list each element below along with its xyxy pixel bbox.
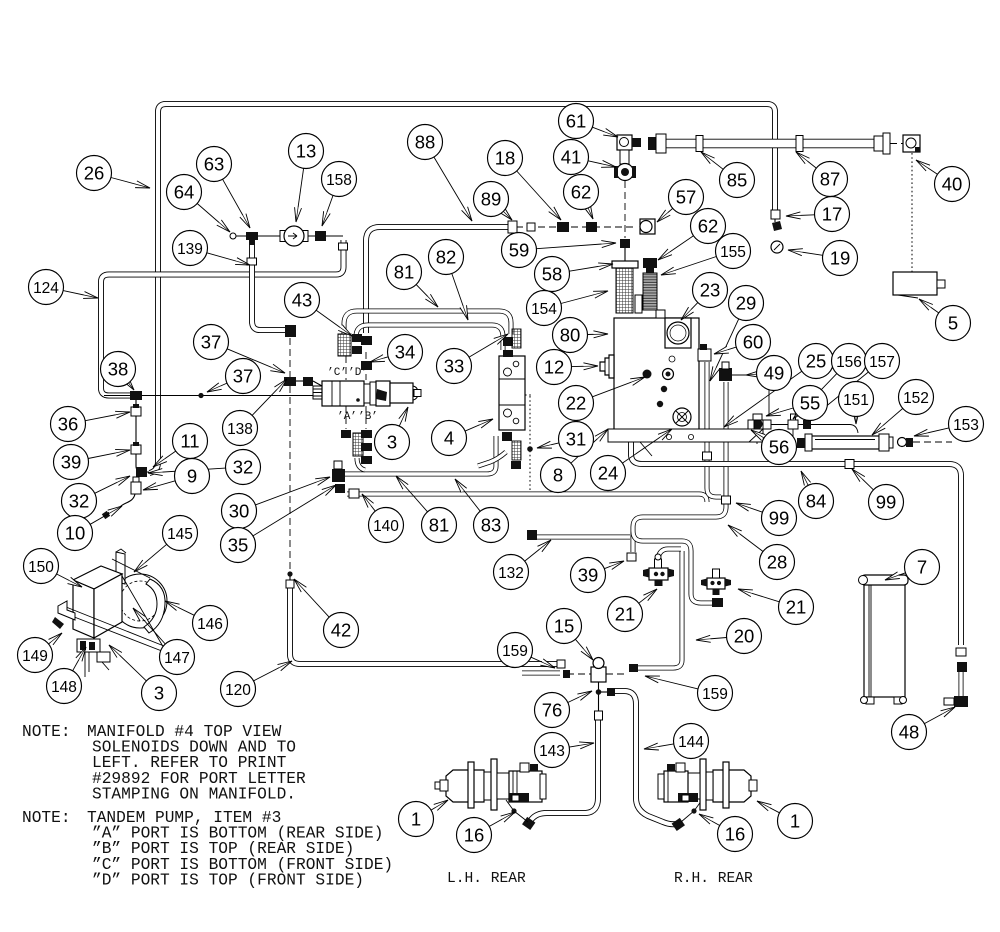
svg-text:12: 12 (544, 357, 565, 378)
hose 20 (637, 551, 682, 668)
elbow 40 (903, 135, 920, 152)
balloon 30 (222, 494, 257, 529)
balloon 3 (375, 425, 410, 460)
svg-text:57: 57 (676, 187, 697, 208)
svg-text:61: 61 (566, 111, 587, 132)
ball valve 56 (752, 419, 763, 430)
motor mount 12 (600, 355, 614, 378)
balloon 9 (175, 459, 210, 494)
svg-text:16: 16 (725, 824, 746, 845)
svg-text:24: 24 (598, 463, 619, 484)
balloon 21 (779, 590, 814, 625)
fittings below block (502, 432, 512, 441)
fitting 89 (508, 221, 517, 233)
svg-text:153: 153 (953, 417, 979, 434)
svg-text:150: 150 (28, 559, 54, 576)
tee 49 (719, 368, 732, 381)
svg-text:145: 145 (167, 526, 193, 543)
hose85 collars (696, 136, 703, 152)
svg-text:81: 81 (429, 515, 450, 536)
breather 155 (643, 273, 657, 310)
svg-text:60: 60 (743, 332, 764, 353)
balloon 31 (559, 422, 594, 457)
brake Y lines (506, 800, 528, 822)
hose144 end fitting (672, 818, 685, 831)
hose 10 wiggle (107, 494, 135, 514)
svg-text:19: 19 (830, 248, 851, 269)
collar on hose139 top (247, 258, 257, 265)
balloon 32 (62, 484, 97, 519)
svg-text:149: 149 (22, 648, 48, 665)
svg-text:43: 43 (292, 290, 313, 311)
svg-text:146: 146 (197, 616, 223, 633)
svg-text:17: 17 (822, 204, 843, 225)
balloon 39 (54, 445, 89, 480)
svg-text:NOTE:: NOTE: (22, 809, 71, 827)
balloon 28 (760, 545, 795, 580)
balloon 147 (160, 640, 195, 675)
balloon 143 (535, 733, 570, 768)
tee 38 (130, 391, 142, 400)
svg-text:16: 16 (464, 825, 485, 846)
collar 143 (595, 711, 603, 720)
collar 140 (349, 489, 359, 498)
balloon 124 (29, 270, 64, 305)
balloon 29 (729, 286, 764, 321)
balloon 16 (457, 818, 492, 853)
svg-text:155: 155 (720, 244, 746, 261)
svg-text:83: 83 (481, 515, 502, 536)
balloon 39 (571, 558, 606, 593)
svg-text:88: 88 (415, 132, 436, 153)
hose 132 (534, 536, 630, 538)
dashed line x=290 (289, 338, 291, 377)
svg-text:3: 3 (387, 432, 397, 453)
balloon 148 (47, 669, 82, 704)
svg-text:99: 99 (876, 492, 897, 513)
elbow 61 (617, 135, 632, 150)
svg-text:148: 148 (51, 679, 77, 696)
collar on 158 hose (339, 243, 348, 250)
balloon 139 (173, 231, 208, 266)
hose85 left end fittings (648, 137, 656, 150)
svg-text:89: 89 (481, 189, 502, 210)
balloon 48 (892, 715, 927, 750)
svg-text:40: 40 (942, 174, 963, 195)
line ball valve to cylinder (771, 424, 850, 426)
balloon 32 (226, 450, 261, 485)
cooler bottom fittings (956, 648, 966, 656)
fittings 148 under box (77, 639, 100, 652)
svg-text:21: 21 (786, 597, 807, 618)
balloon 37 (226, 359, 261, 394)
balloon 144 (674, 724, 709, 759)
dashed T15 area (567, 673, 592, 675)
svg-text:85: 85 (727, 170, 748, 191)
balloon 41 (554, 140, 589, 175)
balloon 24 (591, 456, 626, 491)
dashed x=530 manifold line (529, 396, 531, 490)
svg-text:’A’: ’A’ (337, 411, 357, 423)
svg-text:L.H. REAR: L.H. REAR (447, 871, 526, 887)
balloon 43 (285, 283, 320, 318)
balloon 89 (474, 182, 509, 217)
svg-text:159: 159 (502, 643, 528, 660)
fitting 55 (763, 420, 771, 429)
hose 48 cooler stub (960, 672, 962, 697)
balloon 140 (369, 508, 404, 543)
svg-text:25: 25 (806, 351, 827, 372)
dashed pump ports C D (345, 356, 347, 380)
fittings below pump (341, 430, 351, 438)
ball end 153 (898, 438, 907, 447)
svg-text:139: 139 (177, 241, 203, 258)
svg-text:33: 33 (444, 356, 465, 377)
balloon 40 (935, 167, 970, 202)
balloon 150 (24, 549, 59, 584)
hose 88 (366, 227, 513, 333)
svg-text:56: 56 (769, 437, 790, 458)
balloon 99 (869, 485, 904, 520)
balloon 18 (488, 141, 523, 176)
balloon 138 (223, 411, 258, 446)
balloon 1 (778, 804, 813, 839)
brake valve no.2 (701, 569, 731, 595)
svg-text:140: 140 (373, 518, 399, 535)
base bracket 149 (58, 601, 75, 620)
balloon 63 (197, 147, 232, 182)
dashed from valve41 down to tank filter (624, 181, 626, 238)
balloon 153 (949, 407, 984, 442)
hose 139 (252, 243, 286, 330)
svg-text:32: 32 (69, 491, 90, 512)
svg-text:154: 154 (531, 301, 557, 318)
valve 9 (131, 482, 141, 494)
svg-text:36: 36 (58, 414, 79, 435)
balloon 33 (437, 349, 472, 384)
balloon 15 (547, 609, 582, 644)
svg-text:144: 144 (678, 734, 704, 751)
LH brake assembly (435, 759, 546, 810)
svg-text:39: 39 (61, 452, 82, 473)
elbow 19 area (772, 221, 782, 231)
svg-text:143: 143 (539, 743, 565, 760)
valve block 4 (499, 356, 525, 430)
balloon 16 (718, 817, 753, 852)
elbow 60 (698, 349, 711, 361)
svg-text:28: 28 (767, 552, 788, 573)
balloon 149 (18, 638, 53, 673)
collar hoseA (703, 452, 712, 460)
brake cylinder 152 (811, 436, 879, 449)
bracket 145 post (116, 552, 125, 584)
svg-text:NOTE:: NOTE: (22, 723, 71, 741)
hose down to brake valve 1 (633, 503, 726, 552)
balloon 81 (387, 255, 422, 290)
balloon 61 (559, 104, 594, 139)
balloon 82 (429, 240, 464, 275)
svg-text:64: 64 (174, 182, 195, 203)
svg-text:138: 138 (227, 421, 253, 438)
balloon 26 (77, 156, 112, 191)
fitting 34 column (361, 336, 372, 370)
balloon 85 (720, 163, 755, 198)
svg-text:156: 156 (836, 354, 862, 371)
hose 30/35 long middle (347, 494, 707, 502)
fitting 158 (315, 231, 326, 241)
svg-text:9: 9 (187, 466, 197, 487)
pump assy box 150 (73, 566, 122, 589)
hose below block to loop (478, 452, 506, 466)
svg-text:3: 3 (154, 683, 164, 704)
svg-text:22: 22 (566, 393, 587, 414)
pump item 3 (313, 386, 322, 399)
svg-text:29: 29 (736, 293, 757, 314)
gear housing 146 (113, 574, 167, 628)
balloon 8 (541, 458, 576, 493)
svg-text:37: 37 (233, 366, 254, 387)
balloon 62 (691, 209, 726, 244)
balloon 10 (58, 516, 93, 551)
balloon 55 (793, 386, 828, 421)
line T49 to ball valve 56 (731, 375, 769, 415)
svg-text:7: 7 (917, 557, 927, 578)
fitting 64 (230, 233, 236, 239)
svg-text:13: 13 (296, 141, 317, 162)
hose143 end fitting (522, 817, 535, 830)
hose 120/42 (290, 586, 558, 664)
balloon 159 (698, 676, 733, 711)
svg-text:11: 11 (180, 431, 199, 452)
svg-text:15: 15 (554, 616, 575, 637)
elbow 30/35 (332, 469, 345, 482)
hose 84 to cooler (631, 437, 961, 645)
svg-text:18: 18 (495, 148, 516, 169)
hose85 right end (874, 136, 883, 151)
svg-text:1: 1 (790, 811, 800, 832)
svg-text:62: 62 (571, 182, 592, 203)
balloon 25 (799, 344, 834, 379)
tee 15 (591, 667, 606, 682)
svg-text:4: 4 (444, 428, 454, 449)
balloon 22 (559, 386, 594, 421)
svg-text:23: 23 (700, 280, 721, 301)
fitting 62b (643, 258, 657, 273)
hose 82 pump loop inner (356, 325, 503, 350)
balloon 152 (899, 380, 934, 415)
collar 99a (722, 496, 731, 504)
line from tee down left side (135, 396, 137, 466)
balloon 158 (322, 162, 357, 197)
loop right end fitting 17 column (774, 210, 776, 222)
svg-text:5: 5 (948, 313, 958, 334)
dashed elbow40 down to box5 (911, 153, 913, 272)
svg-text:41: 41 (561, 147, 582, 168)
balloon 38 (101, 352, 136, 387)
svg-text:30: 30 (229, 501, 250, 522)
svg-text:49: 49 (764, 363, 785, 384)
svg-text:39: 39 (578, 565, 599, 586)
balloon 19 (823, 241, 858, 276)
balloon 56 (762, 430, 797, 465)
tank ports (643, 370, 652, 379)
hose 144 (614, 691, 677, 824)
collar hose120 end (557, 660, 565, 668)
hose 26 main loop (150, 104, 776, 473)
dashed hose85 to elbow40 (890, 143, 903, 145)
svg-text:159: 159 (702, 686, 728, 703)
hose 85/87 large (666, 143, 880, 145)
svg-text:120: 120 (225, 682, 251, 699)
svg-text:58: 58 (542, 264, 563, 285)
fitting 39 (131, 445, 141, 454)
balloon 60 (736, 325, 771, 360)
valve 41 (617, 164, 634, 181)
hose from tee 49 (725, 382, 727, 497)
hose 124 (101, 240, 344, 396)
fitting 62 (586, 222, 597, 232)
svg-text:157: 157 (869, 354, 895, 371)
svg-text:80: 80 (560, 325, 581, 346)
suction line y=395 (104, 395, 314, 397)
svg-text:42: 42 (331, 620, 352, 641)
svg-text:37: 37 (201, 332, 222, 353)
small neck between (635, 295, 642, 313)
svg-text:76: 76 (542, 700, 563, 721)
svg-text:35: 35 (228, 535, 249, 556)
svg-text:152: 152 (903, 390, 929, 407)
svg-text:81: 81 (394, 262, 415, 283)
tee 63 (246, 232, 258, 245)
balloon 87 (813, 162, 848, 197)
balloon 157 (865, 344, 900, 379)
balloon 146 (193, 606, 228, 641)
balloon 132 (494, 555, 529, 590)
balloon 36 (51, 407, 86, 442)
svg-text:38: 38 (108, 359, 129, 380)
balloon 58 (535, 257, 570, 292)
elbow 48 (954, 696, 968, 707)
svg-text:8: 8 (553, 465, 563, 486)
elbow 11/32 (136, 467, 147, 477)
hose 159 left stub (522, 671, 560, 676)
svg-text:10: 10 (65, 523, 86, 544)
collar 39b target (627, 553, 636, 561)
svg-text:62: 62 (698, 216, 719, 237)
dashed fitting line y=227 (516, 226, 637, 228)
svg-text:’C’: ’C’ (327, 367, 347, 379)
balloon 99 (762, 501, 797, 536)
balloon 1 (399, 802, 434, 837)
balloon 17 (815, 197, 850, 232)
svg-text:147: 147 (164, 650, 190, 667)
collar 99b on R1 (845, 460, 854, 469)
fitting end hose 132 (527, 530, 537, 540)
tee and fitting at 792/806 (788, 420, 798, 429)
svg-text:132: 132 (498, 565, 524, 582)
collar hose42 top (286, 580, 294, 588)
balloon 57 (669, 180, 704, 215)
svg-text:158: 158 (326, 172, 352, 189)
balloon 5 (936, 306, 971, 341)
svg-text:21: 21 (615, 604, 636, 625)
balloon 83 (474, 508, 509, 543)
loop right column fittings (503, 350, 513, 357)
fitting 18 (557, 222, 569, 232)
balloon 13 (289, 134, 324, 169)
elbow end of hose139 (285, 325, 296, 337)
svg-text:26: 26 (84, 163, 105, 184)
tank base plate (608, 429, 763, 442)
svg-text:59: 59 (509, 240, 530, 261)
balloon 155 (716, 234, 751, 269)
svg-text:R.H. REAR: R.H. REAR (674, 871, 753, 887)
box 5 (893, 272, 937, 295)
screw 24 (673, 408, 691, 426)
fitting 59 (620, 239, 630, 248)
svg-text:STAMPING ON MANIFOLD.: STAMPING ON MANIFOLD. (92, 785, 296, 803)
balloon 7 (905, 550, 940, 585)
brake valve 39/21 no.1 (643, 554, 674, 586)
svg-text:”D” PORT IS TOP (FRONT SIDE): ”D” PORT IS TOP (FRONT SIDE) (92, 871, 364, 889)
link brake valve1 to hose 20 (658, 549, 681, 558)
balloon 35 (221, 528, 256, 563)
svg-text:32: 32 (233, 457, 254, 478)
fitting small left pair (527, 223, 535, 231)
balloon 37 (194, 325, 229, 360)
sight glass 57 (640, 219, 655, 234)
flow indicator 13 (280, 231, 287, 242)
svg-text:84: 84 (806, 491, 827, 512)
svg-text:48: 48 (899, 722, 920, 743)
balloon 156 (832, 344, 867, 379)
balloon 3 (142, 676, 177, 711)
balloon 145 (163, 516, 198, 551)
balloon 154 (527, 291, 562, 326)
hose 143 (531, 720, 598, 820)
fitting 36 (131, 407, 141, 416)
svg-text:20: 20 (734, 626, 755, 647)
balloon 120 (221, 672, 256, 707)
tank flange 23 (665, 318, 691, 348)
balloon 80 (553, 318, 588, 353)
elbow under valve2 (712, 598, 723, 607)
hose 21 to brake valve 2 (633, 531, 716, 603)
balloon 81 (422, 508, 457, 543)
balloon 59 (502, 233, 537, 268)
line through flow indicator 13 (233, 235, 282, 237)
fitting end hose 20 (629, 664, 638, 672)
fitting 17 (771, 210, 780, 219)
svg-text:1: 1 (411, 809, 421, 830)
balloon 88 (408, 125, 443, 160)
balloon 12 (537, 350, 572, 385)
svg-text:’B’: ’B’ (358, 411, 378, 423)
svg-text:55: 55 (800, 393, 821, 414)
balloon 62 (564, 175, 599, 210)
flange 58 (612, 261, 638, 268)
balloon 4 (432, 421, 467, 456)
svg-text:82: 82 (436, 247, 457, 268)
balloon 49 (757, 356, 792, 391)
filter 43 (338, 334, 351, 356)
balloon 76 (535, 693, 570, 728)
node 37 dot (198, 393, 203, 398)
svg-text:151: 151 (843, 392, 869, 409)
svg-text:124: 124 (33, 280, 59, 297)
balloon 84 (799, 484, 834, 519)
balloon 34 (388, 335, 423, 370)
